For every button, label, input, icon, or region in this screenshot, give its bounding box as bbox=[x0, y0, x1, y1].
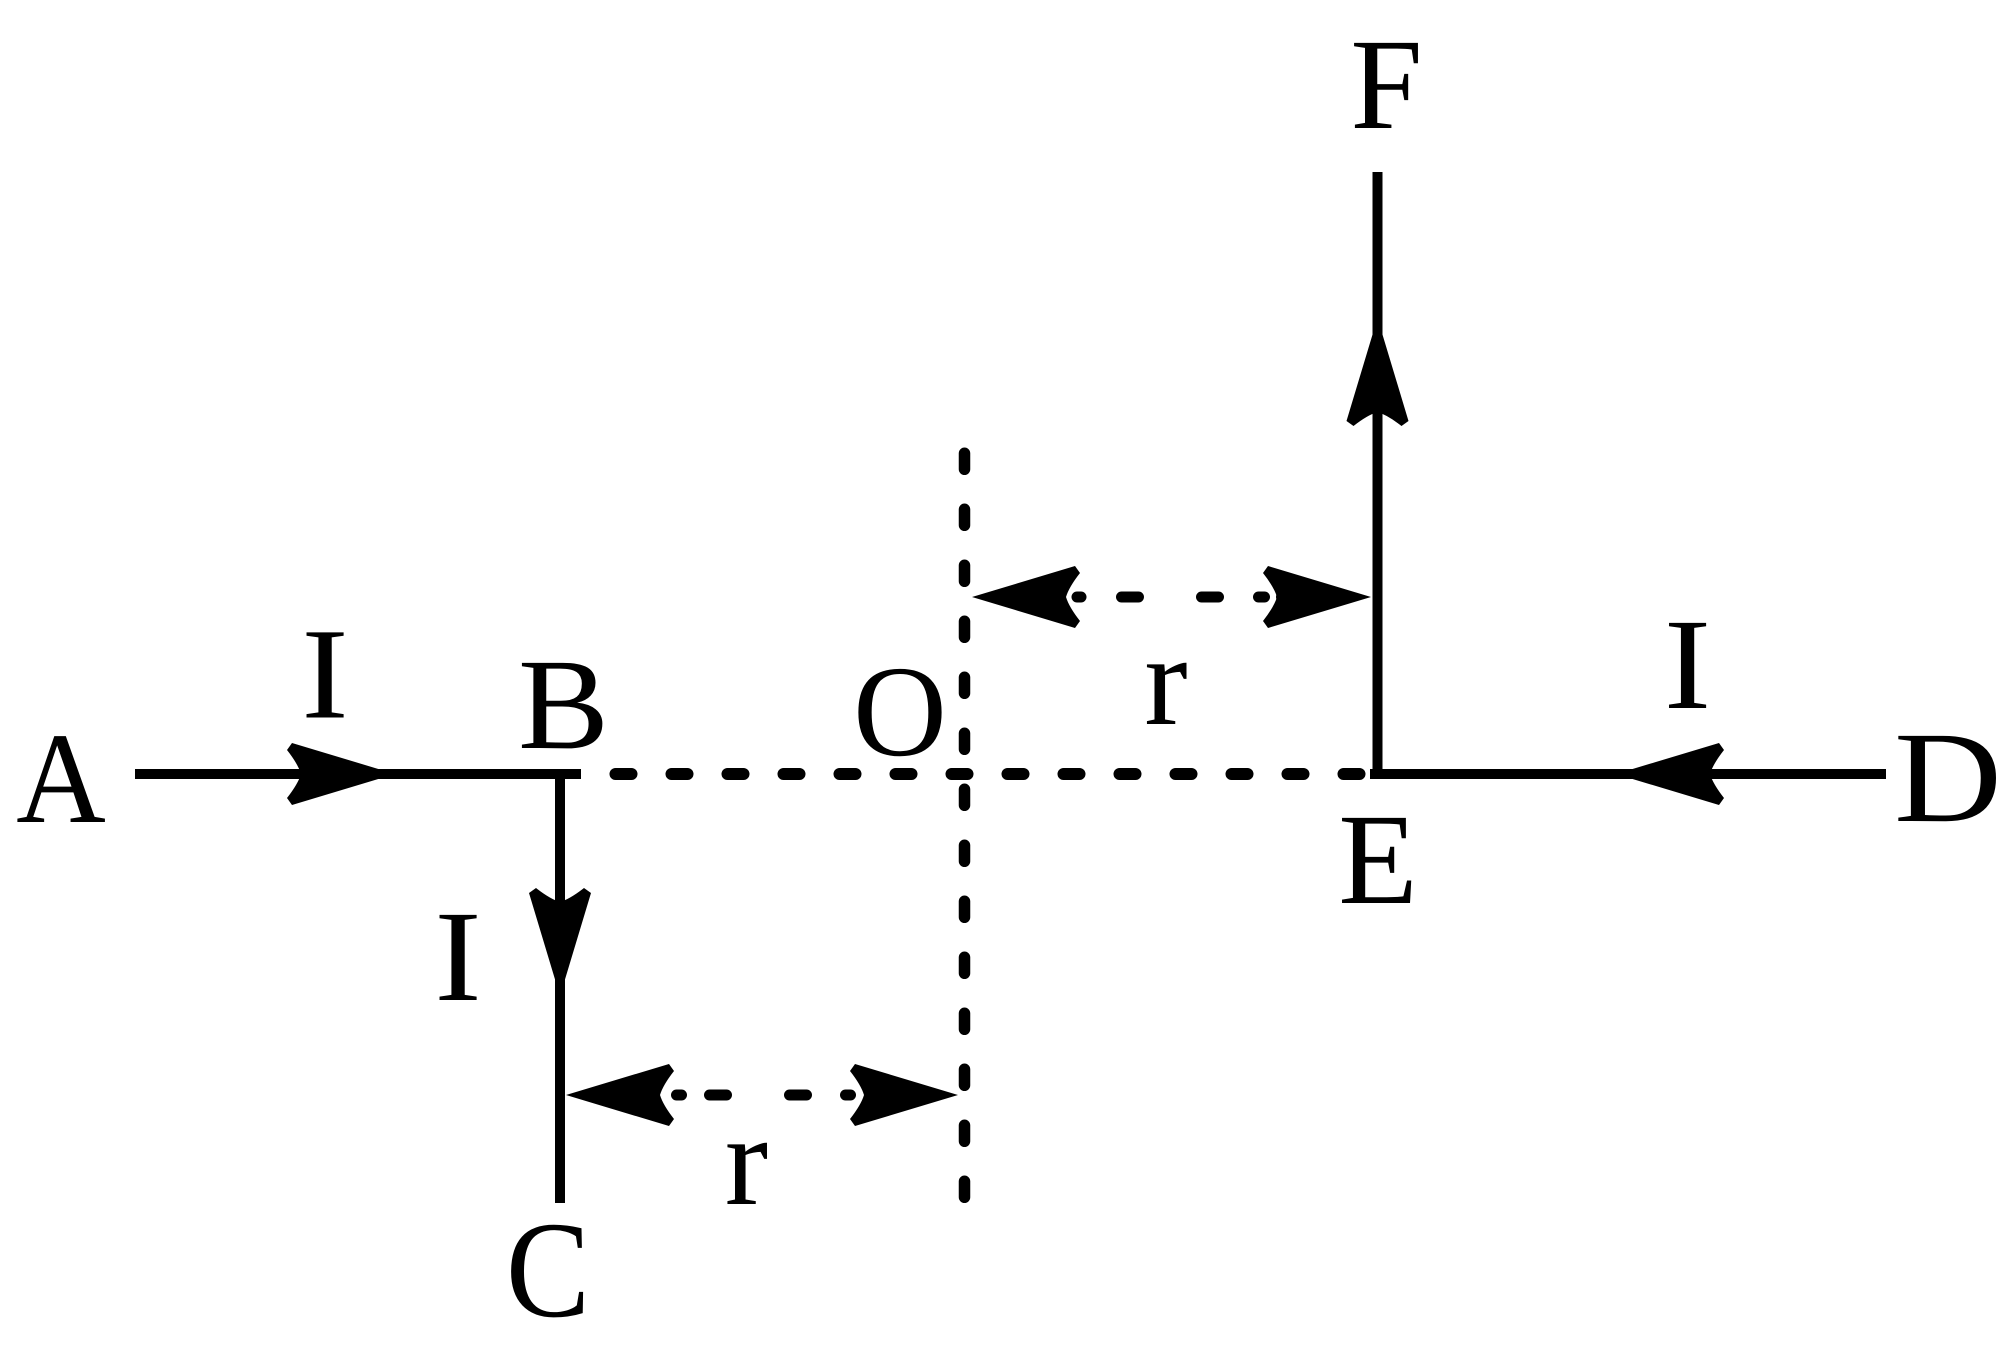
svg-text:B: B bbox=[518, 632, 609, 776]
svg-text:C: C bbox=[506, 1193, 590, 1346]
svg-text:I: I bbox=[434, 885, 481, 1028]
svg-text:r: r bbox=[725, 1089, 768, 1233]
svg-text:A: A bbox=[16, 707, 106, 850]
svg-text:r: r bbox=[1144, 609, 1187, 753]
svg-text:I: I bbox=[301, 603, 348, 746]
svg-text:E: E bbox=[1338, 788, 1417, 932]
svg-text:I: I bbox=[1664, 593, 1711, 736]
svg-text:F: F bbox=[1350, 13, 1422, 157]
svg-text:O: O bbox=[853, 640, 947, 784]
svg-text:D: D bbox=[1894, 706, 2002, 850]
